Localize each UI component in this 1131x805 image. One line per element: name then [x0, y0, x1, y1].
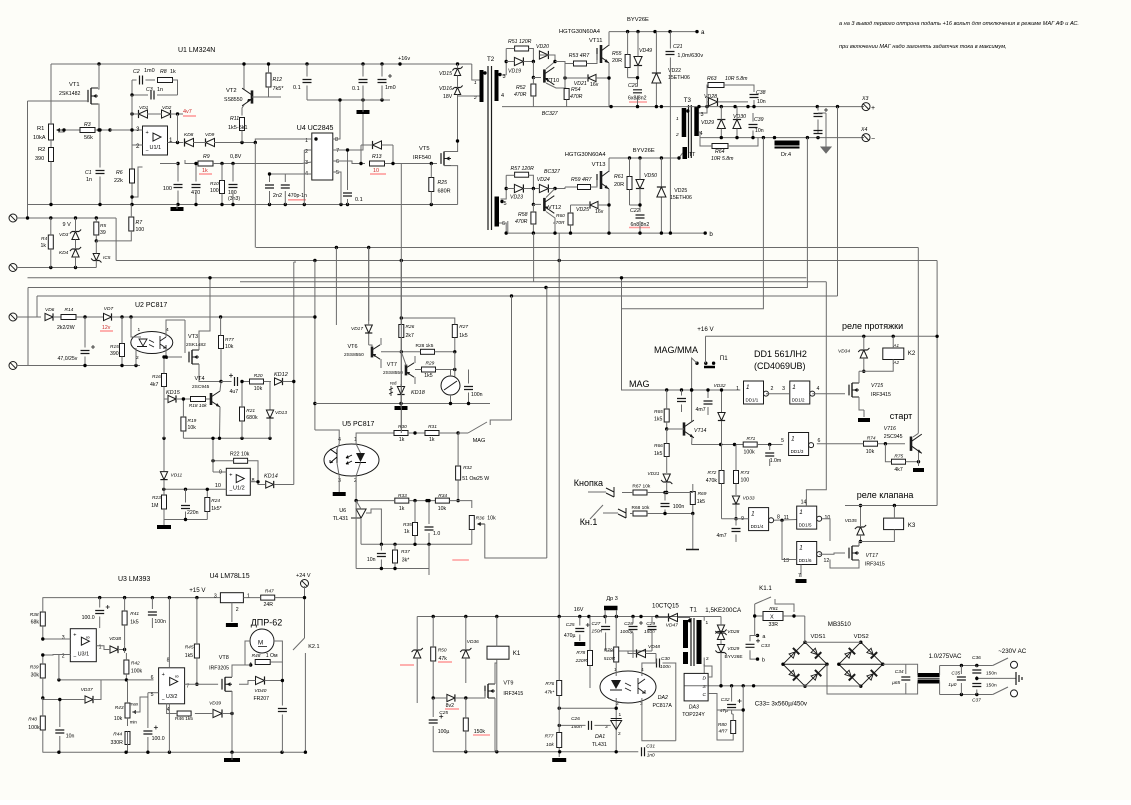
- capacitor C27 150n: [601, 627, 610, 630]
- resistor R44 330R: [125, 732, 130, 745]
- ground output: [825, 113, 827, 145]
- diode VD38: [110, 646, 118, 653]
- svg-text:100k: 100k: [131, 669, 143, 675]
- svg-text:R43: R43: [115, 705, 124, 711]
- resistor R80 4R7: [731, 721, 736, 734]
- wire bus W1 +supply: [256, 247, 919, 249]
- svg-text:~230V AC: ~230V AC: [998, 648, 1027, 655]
- svg-text:5: 5: [336, 170, 339, 176]
- diode VD40 FR207: [256, 676, 265, 684]
- svg-text:3: 3: [62, 635, 65, 641]
- resistor R8 1k: [158, 78, 173, 83]
- svg-text:6: 6: [818, 438, 821, 444]
- svg-text:15ETH06: 15ETH06: [668, 75, 690, 81]
- wire AC top: [940, 665, 993, 667]
- wire bus W3: [28, 277, 807, 279]
- resistor R30 1k: [394, 431, 408, 436]
- svg-text:K2.1: K2.1: [308, 644, 319, 650]
- capacitor 0.1 bypass A: [303, 80, 312, 83]
- svg-text:VD3: VD3: [59, 232, 69, 238]
- svg-text:R5: R5: [100, 223, 106, 229]
- transistor VT10 BC327: [543, 69, 546, 82]
- resistor R77 10k: [557, 733, 562, 748]
- resistor R69 1k5: [690, 492, 695, 505]
- svg-text:4v7: 4v7: [183, 109, 192, 115]
- svg-text:1m0: 1m0: [385, 85, 396, 91]
- wire T1 pin2: [703, 658, 705, 686]
- svg-text:старт: старт: [890, 411, 912, 421]
- svg-text:VD31: VD31: [647, 471, 659, 477]
- diode VD37: [85, 696, 93, 703]
- wire U3/2 +in: [148, 692, 159, 694]
- svg-text:R9: R9: [203, 154, 210, 160]
- svg-text:1: 1: [751, 511, 754, 518]
- svg-text:VT13: VT13: [592, 162, 606, 168]
- svg-text:U6: U6: [339, 508, 346, 514]
- wire X4 minus rail: [700, 137, 864, 139]
- resistor R59 4R7: [578, 185, 591, 190]
- svg-text:33R: 33R: [769, 622, 779, 628]
- wire +16v drop to T2 pin1: [472, 64, 476, 80]
- resistor R81 X 33R: [763, 612, 783, 621]
- capacitor 0.1 at pin7 net: [343, 193, 352, 196]
- svg-text:R11: R11: [230, 116, 239, 122]
- svg-text:R21: R21: [246, 408, 255, 414]
- svg-text:1k: 1k: [429, 437, 435, 443]
- svg-text:100.0: 100.0: [82, 615, 95, 621]
- diode VD17: [365, 325, 372, 333]
- svg-text:470µ: 470µ: [564, 633, 576, 639]
- svg-text:C33: C33: [761, 643, 770, 649]
- svg-text:1m0: 1m0: [144, 68, 155, 74]
- svg-text:1: 1: [676, 116, 679, 122]
- svg-text:16v: 16v: [595, 209, 604, 215]
- svg-text:680k: 680k: [246, 415, 258, 421]
- svg-text:KD15: KD15: [166, 390, 181, 396]
- svg-text:TL431: TL431: [592, 742, 607, 748]
- resistor R68 10k: [633, 511, 647, 516]
- svg-text:330R: 330R: [111, 740, 124, 746]
- terminal input 1: [9, 214, 17, 222]
- svg-text:KD14: KD14: [264, 474, 278, 480]
- capacitor C25b 100u: [429, 720, 438, 723]
- resistor R16 4k7: [162, 374, 167, 387]
- svg-text:VT4: VT4: [195, 376, 205, 382]
- wire bottom rail flyback: [433, 751, 638, 753]
- svg-text:R14: R14: [65, 307, 74, 313]
- svg-text:1: 1: [619, 712, 622, 718]
- svg-text:10k: 10k: [546, 742, 554, 748]
- svg-text:100: 100: [210, 188, 219, 194]
- wire U6 bottom rail: [356, 568, 429, 570]
- svg-text:U5 PC817: U5 PC817: [342, 421, 374, 428]
- capacitor 470p-1n (red): [281, 185, 290, 188]
- svg-text:M: M: [258, 640, 263, 647]
- capacitor C37: [972, 684, 981, 687]
- vertical W5 to TL431 block: [546, 288, 548, 559]
- svg-text:2k7: 2k7: [406, 333, 414, 339]
- resistor R13 10 (red): [370, 161, 385, 166]
- wire VT8 source down: [231, 691, 233, 752]
- svg-text:R50: R50: [438, 648, 447, 654]
- svg-text:C31: C31: [646, 744, 655, 750]
- svg-text:b: b: [762, 658, 765, 664]
- svg-text:R12: R12: [273, 77, 283, 83]
- wire VT4 emitter rail: [183, 437, 270, 439]
- svg-text:1.0m: 1.0m: [770, 458, 782, 464]
- head symbol circle: [441, 376, 460, 395]
- svg-text:10n: 10n: [755, 128, 764, 134]
- resistor R61 20R: [627, 177, 632, 190]
- diode VD21 16v: [588, 74, 596, 81]
- wire +16V feed: [706, 335, 938, 337]
- capacitor 100 first: [174, 185, 183, 188]
- svg-text:R20: R20: [254, 373, 263, 379]
- resistor R45 1k5: [194, 644, 199, 658]
- svg-text:C27: C27: [592, 621, 601, 627]
- svg-text:VD11: VD11: [171, 473, 183, 479]
- wire DD1/4 out to DD1/5: [774, 519, 797, 522]
- capacitor C39 10n: [749, 125, 758, 128]
- svg-text:10CTQ15: 10CTQ15: [652, 603, 679, 610]
- transformer T1: [683, 620, 688, 648]
- capacitor 4m7 b: [732, 529, 741, 532]
- resistor R34 10k: [435, 498, 449, 503]
- wire VT12 emitter: [546, 212, 555, 234]
- svg-text:1: 1: [736, 386, 739, 392]
- capacitor C2 1m0: [140, 76, 143, 85]
- svg-text:C32: C32: [721, 697, 730, 703]
- svg-text:C28: C28: [624, 621, 633, 627]
- resistor R53 4R7: [574, 61, 587, 66]
- svg-text:DA1: DA1: [595, 734, 605, 740]
- svg-text:8v2: 8v2: [446, 703, 454, 709]
- svg-text:реле протяжки: реле протяжки: [842, 321, 903, 331]
- svg-text:100k: 100k: [744, 450, 756, 456]
- wire VT12 collector: [546, 189, 555, 198]
- diode VD25 16v: [590, 201, 598, 208]
- diode 8v2: [447, 694, 455, 701]
- svg-text:1: 1: [746, 384, 749, 391]
- svg-text:DD1/5: DD1/5: [799, 523, 812, 528]
- resistor R75 4k7: [892, 459, 906, 464]
- svg-text:47,0/25v: 47,0/25v: [58, 356, 78, 362]
- svg-text:R71: R71: [747, 436, 756, 442]
- svg-text:KD8: KD8: [184, 132, 194, 138]
- wire left rail down from gate: [27, 101, 29, 218]
- svg-text:2SK1482: 2SK1482: [59, 91, 80, 97]
- svg-text:10n: 10n: [367, 557, 376, 563]
- wire VD11 KD15 vertical: [163, 399, 165, 438]
- svg-text:TT: TT: [689, 152, 696, 158]
- svg-text:(3n3): (3n3): [228, 196, 240, 202]
- wire bus W5: [28, 287, 807, 289]
- zener KD4: [72, 249, 79, 257]
- capacitor C3 1n: [151, 91, 154, 100]
- svg-text:VD40: VD40: [254, 688, 266, 694]
- wire ground net U1/2: [164, 519, 207, 521]
- svg-text:U4 LM78L15: U4 LM78L15: [210, 573, 250, 580]
- svg-text:12: 12: [824, 558, 830, 564]
- resistor R54 470R: [564, 89, 569, 100]
- svg-text:VD48: VD48: [648, 644, 660, 650]
- capacitor 100 (3n3): [229, 185, 238, 188]
- svg-text:R16: R16: [152, 374, 161, 380]
- wire U4 pin4: [270, 173, 312, 175]
- resistor R50 47k: [431, 647, 436, 661]
- resistor R42 100k: [124, 660, 129, 674]
- svg-text:DD1/4: DD1/4: [751, 524, 764, 529]
- svg-text:MB3510: MB3510: [828, 621, 852, 628]
- resistor R78 220R: [588, 651, 593, 666]
- resistor R14 2k2/2W: [61, 315, 76, 320]
- svg-text:100n: 100n: [154, 619, 166, 625]
- svg-text:8: 8: [252, 478, 255, 484]
- resistor R65 1k5: [664, 409, 669, 422]
- svg-text:100.0: 100.0: [152, 736, 165, 742]
- wire U4 pin2: [304, 149, 312, 151]
- svg-text:10kA: 10kA: [33, 135, 46, 141]
- svg-text:2SC945: 2SC945: [884, 434, 903, 440]
- capacitor C31 1n0: [642, 747, 645, 756]
- ground R77: [552, 758, 566, 762]
- svg-text:−: −: [73, 655, 76, 661]
- vertical VT6 feed: [368, 248, 370, 322]
- svg-text:C30: C30: [661, 656, 670, 662]
- svg-text:R3: R3: [84, 122, 91, 128]
- svg-text:red: red: [390, 381, 397, 386]
- svg-text:1,5KE200CA: 1,5KE200CA: [705, 607, 742, 614]
- terminal b bottom: [756, 657, 759, 660]
- svg-text:7: 7: [336, 148, 339, 154]
- svg-text:MAG: MAG: [629, 379, 650, 389]
- svg-text:R51 120R: R51 120R: [508, 39, 532, 45]
- svg-text:C26: C26: [571, 716, 580, 722]
- svg-text:DD1/3: DD1/3: [791, 449, 804, 454]
- capacitor C28 1000u: [629, 627, 638, 630]
- svg-text:1µ0: 1µ0: [948, 682, 956, 688]
- svg-text:−: −: [162, 697, 165, 703]
- zener left vt9: [414, 650, 421, 658]
- vertical W2 to K3: [936, 261, 938, 506]
- svg-text:5: 5: [504, 201, 507, 207]
- svg-text:2: 2: [236, 607, 239, 613]
- capacitor C25 470u: [575, 629, 584, 632]
- svg-text:16V: 16V: [574, 607, 584, 613]
- svg-text:14: 14: [801, 500, 807, 506]
- svg-text:R10: R10: [210, 181, 219, 187]
- resistor R5 39: [94, 222, 99, 235]
- svg-text:R37: R37: [401, 549, 410, 555]
- diode VD30 out: [733, 120, 741, 129]
- svg-text:56k: 56k: [84, 135, 93, 141]
- capacitor C26 150n: [589, 721, 592, 730]
- svg-text:R79: R79: [604, 648, 613, 654]
- diode VD6: [45, 313, 53, 320]
- svg-text:R81: R81: [769, 606, 778, 612]
- resistor R35 1k: [413, 523, 418, 536]
- wire C pin net: [717, 710, 743, 752]
- capacitor C30 100n: [657, 659, 660, 668]
- svg-text:11: 11: [784, 515, 789, 521]
- regulator U4 LM78L15: [220, 593, 243, 603]
- svg-text:VD16: VD16: [439, 86, 452, 92]
- svg-text:30k: 30k: [31, 673, 40, 679]
- resistor R21 680k: [240, 407, 245, 421]
- svg-text:10k: 10k: [225, 344, 234, 350]
- resistor R6 22k: [130, 169, 135, 183]
- svg-text:390: 390: [35, 156, 44, 162]
- capacitor 100n knopka: [661, 504, 670, 507]
- svg-text:1k5: 1k5: [697, 499, 705, 505]
- svg-text:VT11: VT11: [589, 38, 602, 44]
- svg-text:TL431: TL431: [333, 516, 349, 522]
- svg-text:R28 1k5: R28 1k5: [416, 343, 434, 349]
- capacitor 10n U6: [377, 554, 386, 557]
- svg-text:VD13: VD13: [275, 410, 287, 416]
- svg-text:24R: 24R: [264, 602, 274, 608]
- pot R43 10k: [125, 703, 130, 718]
- svg-text:V716: V716: [884, 426, 896, 432]
- svg-text:R36: R36: [476, 516, 485, 522]
- gate DD1/6: [797, 542, 817, 565]
- svg-text:VD24: VD24: [537, 177, 550, 183]
- diode VD33: [732, 496, 739, 504]
- ch2 driver wiring: [506, 174, 514, 176]
- svg-text:VT9: VT9: [503, 681, 513, 687]
- capacitor 4m7 a: [704, 401, 713, 404]
- ground VT7 rail: [395, 406, 408, 410]
- capacitor 4u7: [235, 377, 238, 386]
- svg-text:R55: R55: [612, 51, 622, 57]
- svg-text:U3 LM393: U3 LM393: [118, 576, 150, 583]
- svg-text:R60: R60: [556, 213, 565, 219]
- svg-text:Dr.4: Dr.4: [781, 152, 791, 158]
- svg-text:VT7: VT7: [387, 362, 397, 368]
- resistor R19 10k: [181, 417, 186, 431]
- diode VD22 15ETH06: [652, 73, 661, 83]
- svg-text:1: 1: [474, 80, 477, 86]
- svg-text:X4: X4: [860, 127, 867, 133]
- wire U4 pin3: [240, 162, 312, 164]
- vertical X3 to W6: [837, 107, 839, 296]
- capacitor C38 10n: [750, 95, 759, 98]
- svg-text:10k: 10k: [254, 386, 263, 392]
- svg-text:+16v: +16v: [398, 56, 410, 62]
- svg-text:C2: C2: [133, 69, 140, 75]
- capacitor motor node: [278, 709, 287, 712]
- svg-text:+16 V: +16 V: [697, 326, 714, 333]
- terminal a bottom: [756, 634, 759, 637]
- svg-text:IRF540: IRF540: [413, 155, 431, 161]
- svg-text:470R: 470R: [515, 219, 528, 225]
- svg-text:реле клапана: реле клапана: [857, 490, 914, 500]
- svg-text:680R: 680R: [438, 189, 451, 195]
- gate DD1/5: [797, 506, 817, 529]
- svg-text:C38: C38: [756, 90, 766, 96]
- svg-text:IRF3415: IRF3415: [865, 562, 885, 568]
- svg-text:10k: 10k: [866, 449, 875, 455]
- svg-text:DD1/1: DD1/1: [746, 398, 759, 403]
- wire S net down: [742, 686, 744, 710]
- svg-text:+: +: [871, 105, 875, 112]
- svg-text:HGTG30N60A4: HGTG30N60A4: [559, 29, 601, 35]
- svg-text:R57 120R: R57 120R: [511, 166, 535, 172]
- svg-text:T1: T1: [690, 607, 698, 614]
- svg-text:0.1: 0.1: [352, 86, 360, 92]
- svg-text:3: 3: [782, 386, 785, 392]
- svg-text:∞: ∞: [175, 674, 179, 680]
- transformer T2 secondary winding 2: [495, 197, 500, 227]
- resistor R58 470R: [531, 212, 536, 224]
- svg-text:R2: R2: [38, 147, 45, 153]
- wire AC bottom: [940, 694, 993, 696]
- ground bar U1/2: [157, 525, 171, 529]
- resistor R51b 150k: [463, 718, 468, 731]
- svg-text:IRF3205: IRF3205: [209, 666, 229, 672]
- wire U1/1 output: [168, 142, 184, 144]
- resistor R32 51 Om25 W: [456, 466, 461, 480]
- inductor Dr.4: [775, 141, 800, 146]
- svg-text:R76: R76: [545, 681, 554, 687]
- capacitor C21 1,0m/630v: [666, 52, 675, 55]
- vertical W1 to VT16: [917, 248, 919, 434]
- resistor R40 100k: [40, 716, 45, 730]
- svg-text:4k7: 4k7: [894, 467, 902, 473]
- svg-text:VD19: VD19: [508, 69, 521, 75]
- wire VT5 drain to T2: [444, 141, 458, 152]
- svg-text:7k5*: 7k5*: [273, 86, 285, 92]
- ground analog rail: [171, 207, 184, 211]
- svg-text:U1 LM324N: U1 LM324N: [178, 47, 215, 54]
- svg-text:U1/1: U1/1: [150, 145, 162, 151]
- svg-text:R68 10k: R68 10k: [632, 505, 650, 511]
- resistor R73 100: [734, 471, 739, 484]
- wire U4 pin8 Vref: [333, 100, 340, 139]
- wire U5 pin4: [315, 430, 339, 444]
- svg-text:R80: R80: [718, 722, 727, 728]
- svg-text:VD30: VD30: [733, 114, 746, 120]
- resistor R55 20R: [625, 55, 630, 68]
- wire C31 to right: [648, 751, 744, 753]
- svg-text:6: 6: [151, 675, 154, 681]
- svg-text:BC327: BC327: [544, 169, 561, 175]
- svg-text:2: 2: [136, 143, 140, 150]
- svg-text:13: 13: [783, 558, 789, 564]
- svg-text:KD4: KD4: [59, 250, 69, 256]
- svg-text:VD35: VD35: [845, 518, 857, 524]
- wire VT6 VT7 ground rail: [315, 403, 490, 405]
- vertical W4 to DD1/5 pin14: [806, 282, 826, 506]
- svg-text:C: C: [703, 692, 707, 698]
- svg-text:20R: 20R: [612, 58, 622, 64]
- svg-text:5: 5: [781, 438, 784, 444]
- zener VD31: [663, 474, 670, 482]
- svg-text:2: 2: [706, 656, 709, 662]
- svg-text:R44: R44: [113, 732, 122, 738]
- vertical from X4 to W5: [806, 138, 809, 288]
- svg-text:R59 4R7: R59 4R7: [571, 177, 593, 183]
- svg-text:R25: R25: [438, 180, 448, 186]
- svg-text:T2: T2: [487, 56, 495, 63]
- diode VD29 out: [717, 120, 725, 129]
- svg-text:1k5-5k1: 1k5-5k1: [228, 125, 248, 131]
- svg-text:4m7: 4m7: [696, 407, 706, 413]
- resistor R3 56k: [80, 128, 95, 133]
- wire U5 pin1 top: [356, 433, 394, 444]
- svg-text:R1: R1: [37, 126, 44, 132]
- wire U4 pin6 out: [333, 161, 365, 164]
